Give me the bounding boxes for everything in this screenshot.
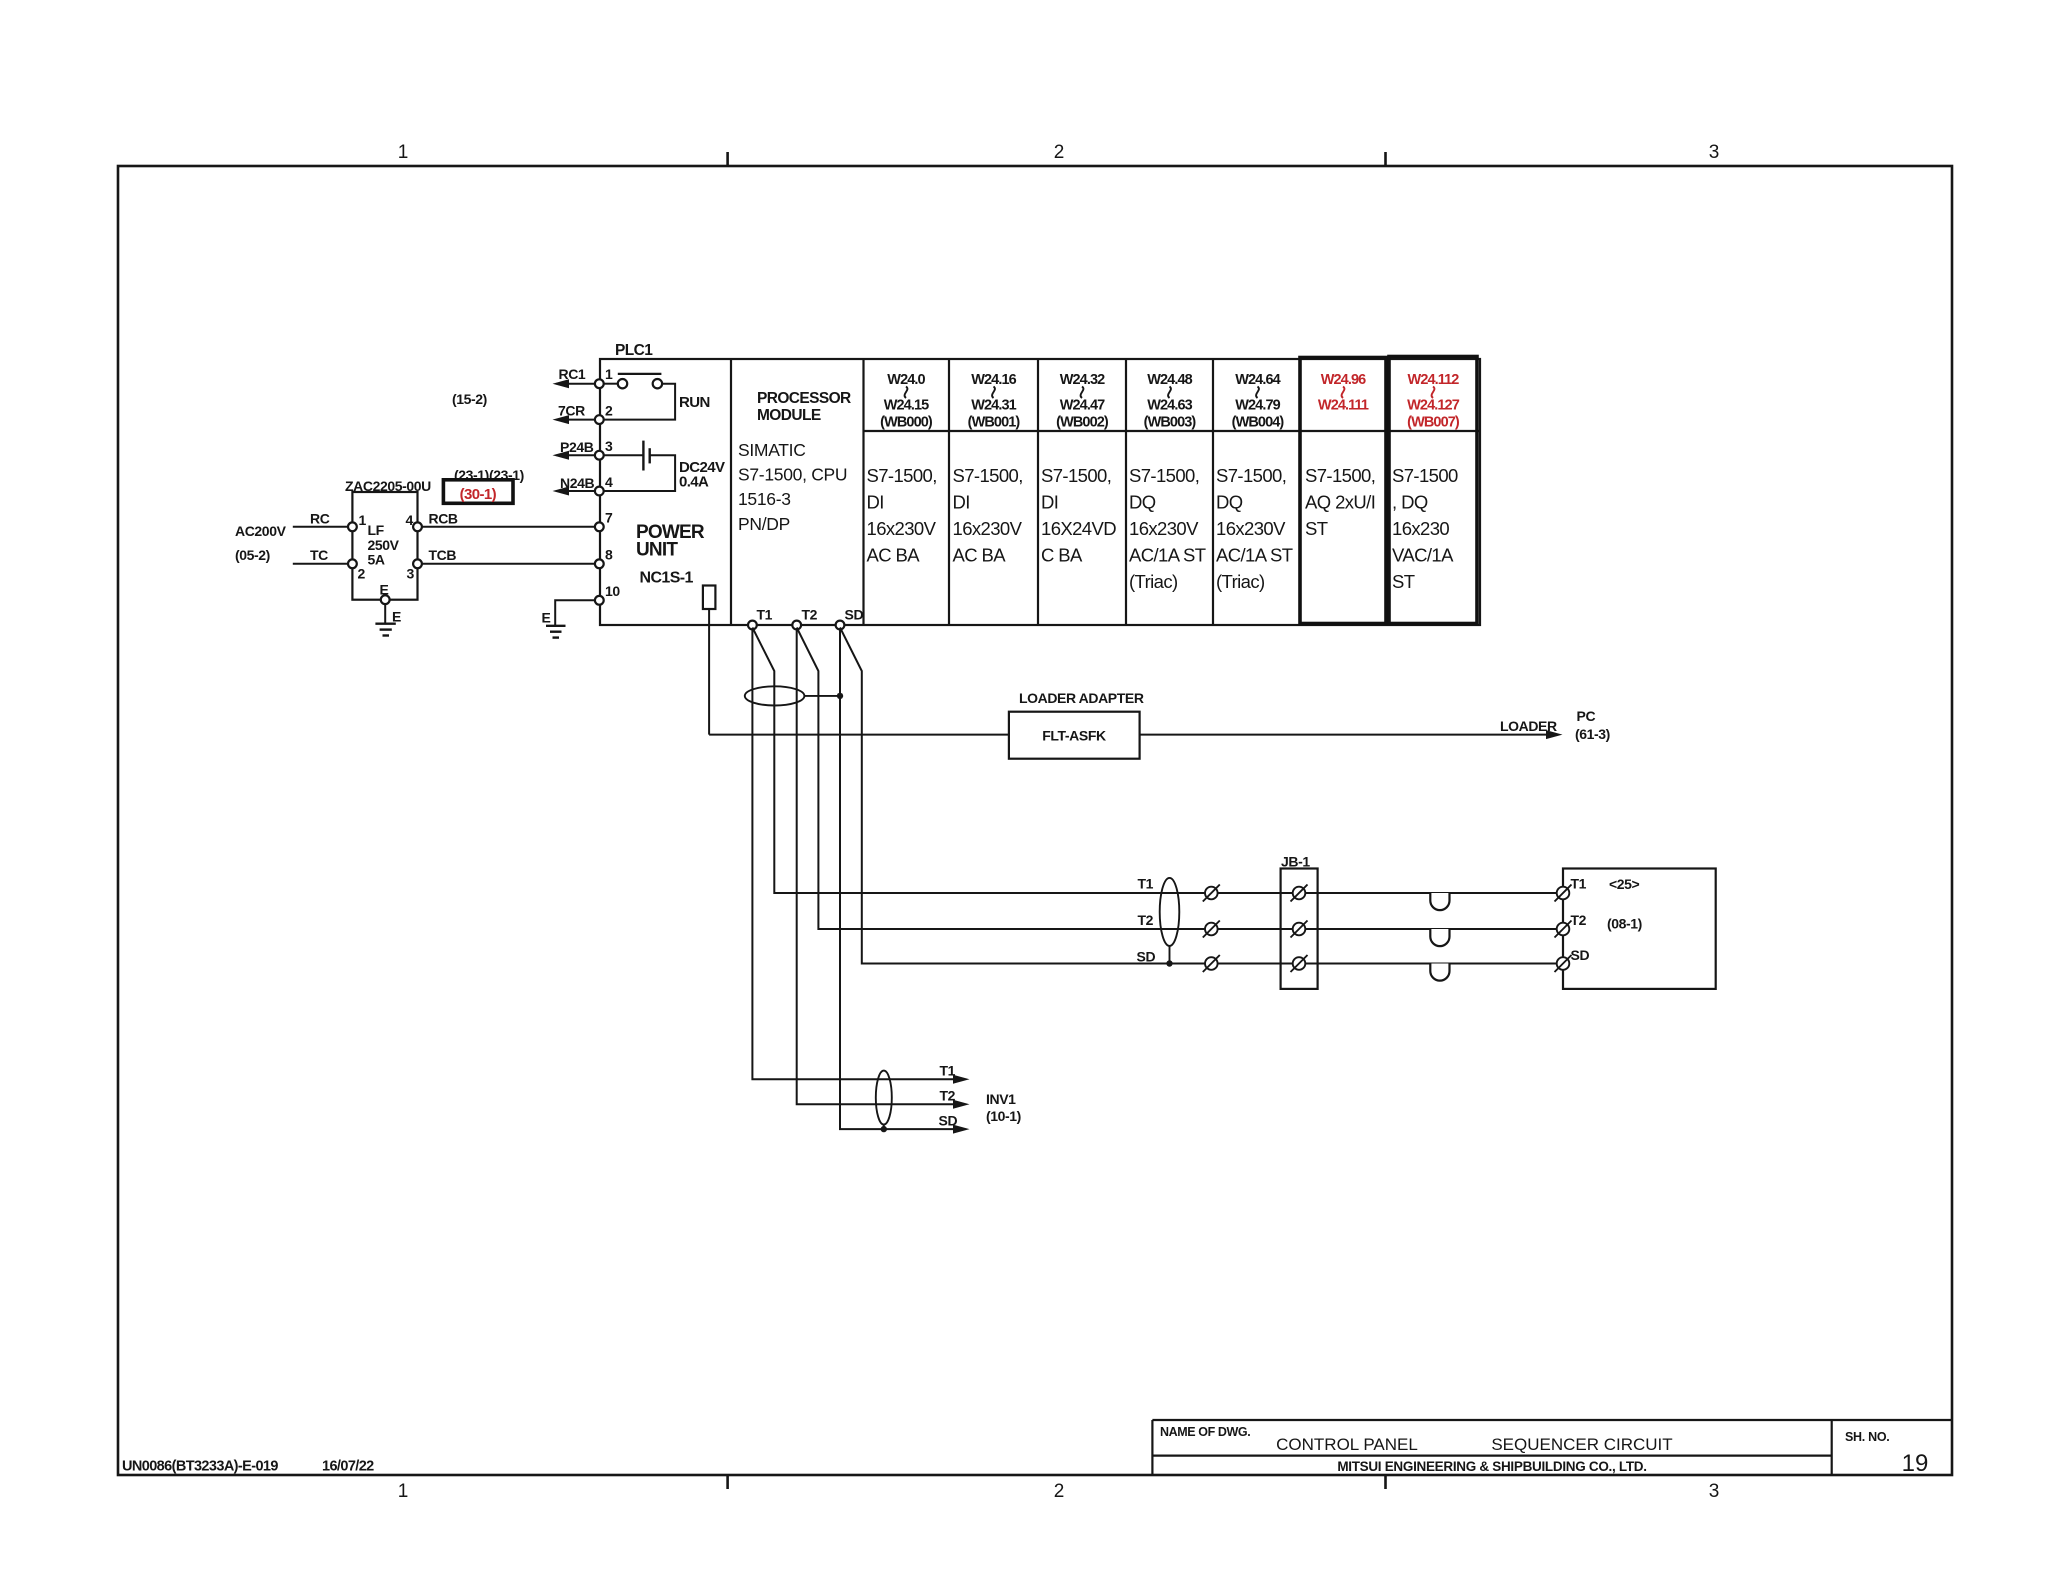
svg-text:2: 2 (605, 403, 613, 419)
svg-text:AC BA: AC BA (953, 545, 1007, 566)
wire RC1 arrow from PLC pin 1 (553, 366, 597, 388)
line filter LF1 ZAC2205-00U (345, 478, 431, 600)
svg-text:E: E (542, 610, 551, 626)
svg-text:(08-1): (08-1) (1607, 916, 1642, 932)
wire TCB from LF1 pin 3 to PLC pin 8 (422, 563, 595, 565)
pin T2 of device 25 (1555, 912, 1587, 938)
svg-text:W24.15: W24.15 (884, 398, 929, 414)
svg-text:7CR: 7CR (558, 403, 585, 419)
pin T2 of PLC1 (792, 607, 817, 630)
conductor mark on wire T2 (1203, 921, 1220, 938)
svg-text:RC1: RC1 (559, 366, 586, 382)
wire from pin 1 to RUN contact (604, 383, 618, 385)
svg-text:AC/1A ST: AC/1A ST (1216, 545, 1293, 566)
svg-text:8: 8 (605, 547, 613, 563)
svg-text:2: 2 (1054, 142, 1065, 163)
svg-text:(15-2): (15-2) (452, 391, 487, 407)
module A1 address header W24.0-W24.15 (WB000) (880, 372, 933, 431)
wire from pin 10 to ground (555, 600, 595, 626)
cable break mark on wire T1 (1430, 893, 1449, 910)
svg-text:AC/1A ST: AC/1A ST (1129, 545, 1206, 566)
svg-text:LOADER: LOADER (1500, 718, 1557, 734)
wire SD down to INV1 row (840, 629, 962, 1129)
svg-text:S7-1500,: S7-1500, (1305, 465, 1375, 486)
svg-text:(30-1): (30-1) (460, 486, 497, 503)
module A6 address header W24.96-W24.111 red (1318, 372, 1369, 414)
svg-text:W24.96: W24.96 (1321, 372, 1366, 388)
wire TC from AC200V to filter pin 2 (293, 563, 348, 565)
wire from fuse F1 down to loader line (708, 609, 710, 735)
svg-text:S7-1500: S7-1500 (1392, 465, 1458, 486)
svg-text:W24.79: W24.79 (1235, 398, 1280, 414)
POWER UNIT label (636, 522, 705, 587)
svg-text:16/07/22: 16/07/22 (322, 1459, 374, 1475)
svg-text:LOADER ADAPTER: LOADER ADAPTER (1019, 690, 1144, 706)
svg-text:AC BA: AC BA (867, 545, 921, 566)
wire from pin 3 to battery BT1 (604, 454, 644, 456)
svg-text:16x230: 16x230 (1392, 518, 1449, 539)
svg-text:SD: SD (845, 607, 864, 623)
svg-text:UNIT: UNIT (636, 540, 678, 561)
svg-text:(WB002): (WB002) (1056, 415, 1109, 431)
svg-text:C BA: C BA (1041, 545, 1083, 566)
svg-text:SH. NO.: SH. NO. (1845, 1430, 1889, 1444)
svg-text:S7-1500,: S7-1500, (1216, 465, 1286, 486)
loader adapter U2 FLT-ASFK (1009, 690, 1144, 759)
svg-text:3: 3 (407, 566, 415, 582)
junction box JB-1 (1281, 854, 1318, 989)
wire from RUN contact to pin 2 (604, 384, 675, 420)
wire T2 branch to JB-1 row (797, 628, 1559, 930)
svg-text:T2: T2 (1138, 912, 1154, 928)
wire from battery BT1 to pin 4 (604, 455, 675, 491)
svg-text:T2: T2 (1571, 912, 1587, 928)
svg-text:PLC1: PLC1 (615, 342, 653, 359)
svg-text:(WB003): (WB003) (1144, 415, 1197, 431)
svg-text:DI: DI (867, 492, 884, 513)
svg-text:W24.64: W24.64 (1235, 372, 1280, 388)
wire SD branch to JB-1 row (840, 628, 1559, 964)
svg-text:NC1S-1: NC1S-1 (640, 570, 694, 587)
wire from FLT-ASFK to loader PC with arrow (1140, 718, 1563, 739)
pin 4 of LF1 (406, 512, 422, 531)
svg-text:CONTROL PANEL: CONTROL PANEL (1276, 1435, 1418, 1454)
svg-text:TCB: TCB (429, 547, 457, 563)
svg-text:(WB004): (WB004) (1232, 415, 1285, 431)
svg-text:W24.0: W24.0 (887, 372, 925, 388)
module A4 address header W24.48-W24.63 (WB003) (1144, 372, 1197, 431)
svg-text:S7-1500,: S7-1500, (867, 465, 937, 486)
I/O module column grid (864, 359, 1481, 625)
JB-1 terminal on SD (1291, 955, 1308, 972)
svg-text:MODULE: MODULE (757, 407, 821, 424)
RUN contact S1 (618, 374, 710, 411)
pin 2 of PLC1 (595, 403, 613, 425)
svg-text:(WB001): (WB001) (968, 415, 1021, 431)
pin T1 of device 25 (1555, 876, 1587, 902)
svg-text:RCB: RCB (429, 511, 458, 527)
svg-text:7: 7 (605, 510, 613, 526)
svg-text:W24.31: W24.31 (971, 398, 1016, 414)
svg-text:S7-1500, CPU: S7-1500, CPU (738, 465, 847, 485)
svg-text:S7-1500,: S7-1500, (1041, 465, 1111, 486)
svg-text:W24.16: W24.16 (971, 372, 1016, 388)
module A2 address header W24.16-W24.31 (WB001) (968, 372, 1021, 431)
svg-text:NAME OF DWG.: NAME OF DWG. (1160, 1425, 1250, 1439)
module A7 type label S7-1500 DQ 16x230VAC/1A ST (1392, 465, 1458, 592)
module A6 type label S7-1500 AQ 2xU/I ST (1305, 465, 1375, 539)
svg-text:3: 3 (1709, 1481, 1720, 1502)
svg-text:1: 1 (398, 142, 409, 163)
svg-text:3: 3 (1709, 142, 1720, 163)
svg-text:1: 1 (359, 512, 367, 528)
svg-text:SD: SD (1137, 949, 1156, 965)
svg-text:(Triac): (Triac) (1129, 571, 1178, 592)
svg-text:0.4A: 0.4A (679, 474, 709, 491)
cable break mark on wire T2 (1430, 929, 1449, 946)
svg-text:(Triac): (Triac) (1216, 571, 1265, 592)
svg-text:PN/DP: PN/DP (738, 514, 790, 534)
svg-text:(WB000): (WB000) (880, 415, 933, 431)
svg-text:T1: T1 (940, 1063, 956, 1079)
svg-text:2: 2 (1054, 1481, 1065, 1502)
svg-text:AC200V: AC200V (235, 523, 287, 539)
svg-text:16X24VD: 16X24VD (1041, 518, 1116, 539)
svg-text:1: 1 (605, 366, 613, 382)
module A7 address header W24.112-W24.127 (WB007) red (1407, 372, 1460, 431)
JB-1 terminal on T1 (1291, 885, 1308, 902)
svg-text:16x230V: 16x230V (953, 518, 1023, 539)
svg-text:RC: RC (310, 511, 330, 527)
svg-text:16x230V: 16x230V (1129, 518, 1199, 539)
pin 1 of PLC1 (595, 366, 613, 388)
svg-text:DQ: DQ (1216, 492, 1243, 513)
module A5 type label S7-1500 DQ 16x230V AC/1A ST (Triac) (1216, 465, 1293, 592)
power unit / processor divider (730, 359, 732, 625)
cable shield marker at INV1 side (876, 1071, 892, 1133)
arrow T1 to INV1 (940, 1063, 970, 1084)
svg-text:4: 4 (406, 512, 414, 528)
svg-text:S7-1500,: S7-1500, (953, 465, 1023, 486)
svg-text:W24.111: W24.111 (1318, 398, 1369, 414)
svg-text:PROCESSOR: PROCESSOR (757, 390, 851, 407)
svg-text:ST: ST (1305, 518, 1328, 539)
svg-text:FLT-ASFK: FLT-ASFK (1042, 728, 1106, 744)
cable shield marker at PLC side (745, 686, 843, 705)
svg-text:PC: PC (1577, 708, 1596, 724)
wire from LF1 pin E to ground (384, 604, 386, 624)
svg-text:3: 3 (605, 438, 613, 454)
pin 3 of LF1 (407, 559, 422, 581)
wire P24B arrow from PLC pin 3 (553, 439, 597, 460)
node INV1 (10-1) label (986, 1091, 1021, 1124)
svg-text:DI: DI (953, 492, 970, 513)
svg-text:16x230V: 16x230V (1216, 518, 1286, 539)
wire T1 down to INV1 row (752, 629, 962, 1079)
svg-text:SD: SD (1571, 947, 1590, 963)
svg-text:T1: T1 (757, 607, 773, 623)
module A7 highlighted outline (1389, 357, 1477, 624)
pin SD of device 25 (1555, 947, 1590, 972)
module A4 type label S7-1500 DQ 16x230V AC/1A ST (Triac) (1129, 465, 1206, 592)
pin E of LF1 (380, 582, 390, 605)
svg-text:S7-1500,: S7-1500, (1129, 465, 1199, 486)
JB-1 terminal on T2 (1291, 921, 1308, 938)
svg-text:1: 1 (398, 1481, 409, 1502)
svg-text:W24.63: W24.63 (1147, 398, 1192, 414)
svg-text:N24B: N24B (560, 475, 594, 491)
svg-text:4: 4 (605, 474, 613, 490)
node AC200V supply label (235, 523, 287, 563)
wire T1 branch to JB-1 row (752, 628, 1558, 894)
pin 2 of LF1 (348, 559, 366, 581)
svg-text:ST: ST (1392, 571, 1415, 592)
svg-text:RUN: RUN (679, 394, 710, 411)
arrow T2 to INV1 (940, 1088, 970, 1109)
svg-text:DI: DI (1041, 492, 1058, 513)
svg-text:INV1: INV1 (986, 1091, 1016, 1107)
pin 4 of PLC1 (595, 474, 613, 495)
fuse F1 (703, 586, 716, 610)
module A5 address header W24.64-W24.79 (WB004) (1232, 372, 1285, 431)
svg-text:SEQUENCER CIRCUIT: SEQUENCER CIRCUIT (1491, 1435, 1672, 1454)
svg-text:W24.48: W24.48 (1147, 372, 1192, 388)
wire T2 down to INV1 row (797, 629, 962, 1104)
svg-text:19: 19 (1902, 1450, 1929, 1477)
svg-text:(61-3): (61-3) (1575, 726, 1610, 742)
wire RC from AC200V to filter pin 1 (293, 526, 348, 528)
module A6 highlighted outline (1300, 358, 1386, 624)
svg-text:AQ 2xU/I: AQ 2xU/I (1305, 492, 1375, 513)
svg-text:LF: LF (368, 522, 385, 538)
svg-text:SIMATIC: SIMATIC (738, 440, 806, 460)
PROCESSOR MODULE U1 labels (738, 390, 851, 534)
svg-text:2: 2 (358, 566, 366, 582)
svg-text:5A: 5A (368, 552, 385, 568)
svg-text:T2: T2 (940, 1088, 956, 1104)
svg-text:, DQ: , DQ (1392, 492, 1428, 513)
svg-text:DQ: DQ (1129, 492, 1156, 513)
svg-text:<25>: <25> (1609, 876, 1640, 892)
wire 7CR arrow from PLC pin 2 (553, 403, 597, 425)
svg-text:JB-1: JB-1 (1281, 854, 1310, 870)
svg-text:(05-2): (05-2) (235, 547, 270, 563)
wire loader adapter line (709, 734, 1009, 736)
pin 1 of LF1 (348, 512, 367, 531)
wire RCB from LF1 pin 4 to PLC pin 7 (422, 526, 595, 528)
svg-text:E: E (392, 609, 401, 625)
cable break mark on wire SD (1430, 964, 1449, 981)
device box 25 (08-1) (1563, 869, 1716, 989)
node PC (61-3) label (1575, 708, 1610, 742)
svg-text:W24.127: W24.127 (1407, 398, 1460, 414)
svg-text:W24.47: W24.47 (1060, 398, 1105, 414)
svg-text:SD: SD (939, 1113, 958, 1129)
cable shield marker at JB side (1160, 878, 1180, 967)
svg-text:UN0086(BT3233A)-E-019: UN0086(BT3233A)-E-019 (122, 1459, 278, 1475)
svg-text:W24.112: W24.112 (1408, 372, 1460, 388)
pin T1 of PLC1 (748, 607, 773, 630)
svg-text:W24.32: W24.32 (1060, 372, 1105, 388)
wire N24B arrow from PLC pin 4 (553, 475, 597, 496)
svg-text:T2: T2 (802, 607, 818, 623)
svg-text:16x230V: 16x230V (867, 518, 937, 539)
ground symbol below LF1 (375, 624, 395, 636)
svg-text:P24B: P24B (560, 439, 594, 455)
ground symbol below PLC pin 10 (546, 626, 566, 638)
module A1 type label S7-1500 DI 16x230V AC BA (867, 465, 937, 566)
module A3 type label S7-1500 DI 16X24VDC BA (1041, 465, 1116, 566)
pin 7 of PLC1 (595, 510, 613, 532)
pin 10 of PLC1 (595, 583, 620, 605)
svg-text:TC: TC (310, 547, 328, 563)
module A3 address header W24.32-W24.47 (WB002) (1056, 372, 1109, 431)
svg-text:T1: T1 (1138, 876, 1154, 892)
svg-text:(WB007): (WB007) (1407, 415, 1460, 431)
svg-text:VAC/1A: VAC/1A (1392, 545, 1454, 566)
svg-text:MITSUI ENGINEERING & SHIPBUILD: MITSUI ENGINEERING & SHIPBUILDING CO., L… (1337, 1459, 1646, 1474)
svg-text:T1: T1 (1571, 876, 1587, 892)
PLC1 rack outline (600, 342, 1480, 625)
pin SD of PLC1 (836, 607, 864, 630)
pin 3 of PLC1 (595, 438, 613, 460)
conductor mark on wire SD (1203, 955, 1220, 972)
pin 8 of PLC1 (595, 547, 613, 569)
processor / module divider (862, 359, 864, 625)
conductor mark on wire T1 (1203, 885, 1220, 902)
battery BT1 DC24V 0.4A (643, 441, 725, 491)
module A2 type label S7-1500 DI 16x230V AC BA (953, 465, 1023, 566)
svg-text:10: 10 (605, 583, 620, 599)
svg-text:(10-1): (10-1) (986, 1108, 1021, 1124)
annotation box (30-1) highlighted (443, 480, 513, 504)
arrow SD to INV1 (939, 1113, 970, 1134)
svg-text:1516-3: 1516-3 (738, 489, 791, 509)
